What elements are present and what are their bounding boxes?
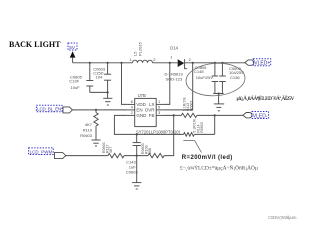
ground input caps xyxy=(103,97,112,99)
svg-text:R0603: R0603 xyxy=(80,133,93,138)
wire FB net xyxy=(163,114,181,116)
svg-text:LX: LX xyxy=(149,102,155,107)
resistor R117 xyxy=(108,153,124,157)
capacitor C136 output xyxy=(221,63,223,76)
capacitor C13F input xyxy=(89,63,91,81)
svg-text:£¬¸ù¾ÝLCD±³¹âµçÁ÷Ñ¡ÔñR¡ÁÖµ: £¬¸ù¾ÝLCD±³¹âµçÁ÷Ñ¡ÔñR¡ÁÖµ xyxy=(180,164,259,172)
svg-text:4K7: 4K7 xyxy=(85,122,93,127)
ground R119 xyxy=(91,139,100,141)
svg-text:U7B: U7B xyxy=(138,93,146,98)
wire sense right join xyxy=(214,115,216,134)
node cap C14E tap xyxy=(214,62,216,64)
resistor R114 sense bottom xyxy=(184,133,195,137)
port LCD_PWM xyxy=(55,153,66,159)
svg-text:5V: 5V xyxy=(69,45,76,51)
net label 5V xyxy=(68,43,77,50)
op IC U7B SY7201 xyxy=(135,98,157,126)
svg-text:LCD_BL_EN: LCD_BL_EN xyxy=(37,107,61,112)
wire output rail xyxy=(185,62,245,64)
port LCD_BL_EN xyxy=(63,107,72,113)
wire PWM rail xyxy=(66,155,108,157)
port VLED+ xyxy=(245,60,254,65)
svg-text:LCD_PWM: LCD_PWM xyxy=(30,149,53,154)
wire output cap bus xyxy=(213,93,223,95)
svg-text:GND: GND xyxy=(136,113,147,118)
svg-text:C14E: C14E xyxy=(194,69,204,74)
svg-text:VDD: VDD xyxy=(136,102,146,107)
wire EN net xyxy=(72,109,127,111)
node OVR tap xyxy=(192,62,194,64)
node cap C136 tap xyxy=(221,62,223,64)
svg-text:20K: 20K xyxy=(148,147,152,154)
svg-text:R=200mV/I (led): R=200mV/I (led) xyxy=(182,155,233,161)
wire VDD drop xyxy=(122,63,128,105)
svg-text:FB: FB xyxy=(149,113,155,118)
svg-text:BACK LIGHT: BACK LIGHT xyxy=(9,40,61,49)
leader line xyxy=(183,140,194,142)
diode D14 xyxy=(178,59,185,67)
wire OVR up xyxy=(163,63,193,110)
wire LX up xyxy=(163,63,170,105)
wire GND pin net xyxy=(114,115,183,134)
resistor R119 pulldown xyxy=(95,110,97,113)
svg-text:R119: R119 xyxy=(83,128,93,133)
resistor R113 sense top xyxy=(181,113,197,117)
svg-text:C0603: C0603 xyxy=(126,170,139,175)
wire xyxy=(124,155,148,157)
port VLED- xyxy=(243,113,252,118)
svg-text:R0603: R0603 xyxy=(190,101,194,111)
wire xyxy=(153,62,178,64)
capacitor C15D input xyxy=(107,63,109,74)
wire rail to FB xyxy=(164,115,174,155)
wire cap bus xyxy=(90,91,108,93)
wire top rail xyxy=(73,62,133,64)
svg-text:10uF/25V: 10uF/25V xyxy=(196,75,214,80)
power arrow 5V xyxy=(70,51,76,57)
ground C143 xyxy=(132,182,141,184)
node LX tap xyxy=(169,62,171,64)
svg-text:D14: D14 xyxy=(170,45,178,50)
svg-text:OVR: OVR xyxy=(145,107,156,112)
svg-text:4K7: 4K7 xyxy=(109,147,113,153)
svg-text:CSDN @Wellyuan: CSDN @Wellyuan xyxy=(268,215,297,220)
ground output caps xyxy=(214,103,224,105)
svg-text:VLED-: VLED- xyxy=(253,114,268,120)
svg-text:VLED+: VLED+ xyxy=(254,61,270,67)
svg-text:EN: EN xyxy=(136,107,142,112)
svg-text:µ¥¿Å¸ßÁÁ¶ÈLED´®Áª¸ÄΪ25V: µ¥¿Å¸ßÁÁ¶ÈLED´®Áª¸ÄΪ25V xyxy=(237,94,295,102)
capacitor C143 xyxy=(136,134,138,142)
capacitor C14E output xyxy=(214,63,216,76)
resistor R103 xyxy=(148,153,164,157)
svg-text:PL2015: PL2015 xyxy=(138,41,143,56)
wire xyxy=(197,114,243,116)
inductor L5 PL2015 xyxy=(133,60,153,63)
svg-text:SOD-123: SOD-123 xyxy=(166,77,183,82)
svg-text:C136: C136 xyxy=(230,75,240,80)
svg-text:R0603: R0603 xyxy=(200,122,204,132)
svg-text:10uF: 10uF xyxy=(71,85,81,90)
svg-text:104: 104 xyxy=(96,75,103,80)
highlight ellipse xyxy=(185,61,246,97)
svg-text:C13F: C13F xyxy=(69,79,79,84)
